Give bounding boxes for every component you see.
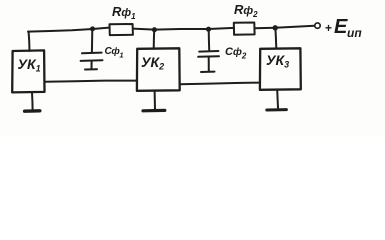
svg-text:+: +	[325, 21, 332, 35]
ground under УК3	[267, 90, 287, 110]
wire from junction down to УК2 top	[153, 30, 156, 49]
svg-text:ип: ип	[347, 26, 362, 40]
ground under УК2	[143, 91, 165, 111]
wire rail segment Rф2 to terminal	[255, 26, 315, 28]
capacitor Сф2	[198, 51, 219, 72]
wire from junction down to Сф2	[208, 29, 211, 50]
wire interstage УК2 to УК3	[180, 83, 260, 85]
svg-text:Rф1: Rф1	[112, 4, 136, 21]
amplifier stage box УК3	[260, 48, 301, 90]
wire interstage УК1 to УК2	[45, 81, 137, 82]
wire vertical from rail corner down to УК1 top	[28, 32, 31, 51]
ground under УК1	[25, 92, 40, 111]
svg-text:Сф2: Сф2	[225, 46, 247, 61]
svg-text:УК3: УК3	[266, 52, 289, 70]
node junction dot above Сф2	[206, 27, 211, 32]
wire from junction down to УК3 top	[274, 28, 277, 49]
resistor Rф2	[234, 23, 255, 35]
wire rail segment Rф1 to Rф2	[133, 28, 234, 30]
node junction dot above УК3	[273, 25, 278, 30]
svg-text:E: E	[334, 16, 348, 38]
wire top rail segment from corner above УК1 to resistor Rф1	[28, 28, 109, 32]
terminal circle +Eип	[315, 23, 320, 28]
amplifier stage box УК2	[137, 48, 180, 91]
amplifier stage box УК1	[12, 50, 44, 92]
svg-text:Rф2: Rф2	[234, 2, 258, 19]
node junction dot above УК2	[152, 27, 157, 32]
node junction dot above Сф1	[90, 26, 95, 31]
wire from junction down to Сф1	[91, 29, 93, 52]
svg-text:Сф1: Сф1	[105, 46, 124, 60]
svg-text:УК1: УК1	[18, 56, 41, 74]
resistor Rф1	[110, 24, 133, 35]
svg-text:УК2: УК2	[141, 54, 164, 72]
capacitor Сф1	[81, 53, 103, 70]
